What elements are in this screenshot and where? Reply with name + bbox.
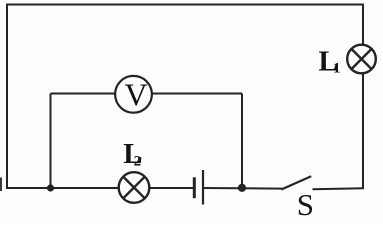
svg-text:2: 2 <box>134 153 142 169</box>
wire top (outer loop) <box>7 4 363 6</box>
svg-text:1: 1 <box>333 60 341 76</box>
wire right (outer loop, through L1) <box>362 4 364 190</box>
wire bottom-left segment (battery negative to left corner) <box>6 187 195 189</box>
wire voltmeter branch right vertical <box>241 94 243 189</box>
battery cell negative plate (short thick) <box>193 177 196 198</box>
voltmeter U1 <box>115 76 152 113</box>
battery cell positive plate (long thin) <box>202 170 204 205</box>
wire voltmeter branch top horizontal <box>51 93 243 95</box>
wire left (outer loop) <box>6 4 8 190</box>
svg-text:V: V <box>124 76 147 112</box>
wire voltmeter branch left vertical <box>50 94 52 189</box>
lamp L1 <box>347 45 376 74</box>
scan edge artifact bottom-left <box>0 178 2 192</box>
svg-text:S: S <box>297 187 314 219</box>
switch S blade <box>281 176 311 189</box>
lamp L2 <box>119 172 150 203</box>
wire bottom-right segment (switch contact to right corner) <box>313 188 365 189</box>
wire bottom-middle segment (battery positive to switch pivot) <box>203 187 283 190</box>
node A (junction dot left) <box>47 184 54 191</box>
node B (junction dot right) <box>238 184 246 192</box>
